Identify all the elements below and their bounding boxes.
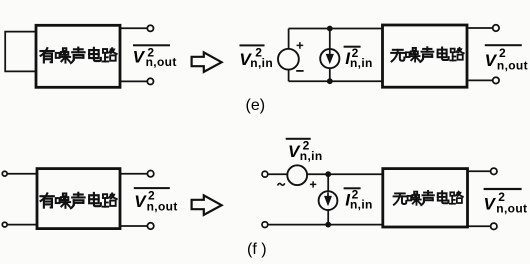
noisy circuit box (e)	[36, 25, 120, 87]
wire: current source branch verticals (e)	[329, 29, 331, 82]
noiseless circuit box (e)	[383, 25, 468, 87]
wire: voltage source branch verticals (e)	[288, 29, 290, 82]
junction dot: bottom rail (e)	[327, 78, 333, 84]
svg-text:V: V	[133, 48, 146, 67]
wire: output top (e noisy box)	[120, 27, 147, 29]
svg-text:n,in: n,in	[350, 197, 373, 211]
svg-text:n,out: n,out	[496, 202, 527, 216]
box label: you-zao-sheng-dian-lu (noisy circuit, e)	[40, 48, 116, 63]
label Vn,out squared (e noiseless box output)	[485, 44, 528, 72]
noisy circuit box (f)	[37, 169, 120, 229]
svg-text:V: V	[485, 51, 498, 70]
wire: output bottom (f noisy box)	[120, 223, 154, 229]
svg-text:n,in: n,in	[300, 149, 323, 163]
figure label (e)	[246, 97, 266, 114]
noiseless circuit box (f)	[383, 169, 468, 227]
wire: shunt current source verticals (f)	[327, 174, 329, 224]
wire: output bottom (f noiseless box)	[468, 223, 497, 229]
svg-text:n,out: n,out	[147, 200, 178, 214]
junction dot: bottom rail (f)	[325, 222, 331, 228]
label In,in squared (e current source)	[344, 46, 373, 70]
svg-text:n,out: n,out	[146, 55, 177, 69]
noise voltage source Vn (e)	[278, 42, 304, 71]
box label: you-zao-sheng-dian-lu (noisy circuit, f)	[40, 193, 116, 208]
label Vn,in squared (f series source)	[286, 138, 323, 163]
svg-text:(e): (e)	[246, 97, 266, 114]
wire: input bottom with terminal (f noisy box)	[2, 222, 36, 227]
wire: input top with terminal (f noisy box)	[2, 171, 36, 176]
label Vn,out squared (e noisy box output)	[133, 44, 177, 69]
svg-text:n,out: n,out	[497, 58, 528, 72]
label Vn,out squared (f noiseless box output)	[484, 188, 528, 216]
wire: top rail (e)	[289, 28, 382, 30]
noise current source In (e)	[320, 49, 339, 68]
svg-text:n,in: n,in	[250, 56, 273, 70]
wire: output top (f noiseless box)	[468, 168, 497, 174]
series noise voltage source Vn (f)	[278, 165, 317, 187]
block arrow (f)	[192, 195, 222, 215]
label Vn,in squared (e input source)	[239, 44, 273, 70]
label In,in squared (f current source)	[344, 187, 373, 211]
wire: output top (f noisy box)	[120, 171, 154, 177]
box label: wu-zao-sheng-dian-lu (noiseless circuit, f)	[394, 191, 463, 205]
wire: output top (e noiseless box)	[468, 25, 499, 31]
svg-text:V: V	[134, 192, 147, 211]
wire: series source to box (f)	[307, 173, 382, 175]
junction dot: top rail (f)	[325, 171, 331, 177]
svg-text:(f ): (f )	[247, 241, 267, 258]
label Vn,out squared (f noisy box output)	[134, 187, 178, 214]
svg-text:V: V	[484, 195, 497, 214]
wire: input short-circuit loop (e)	[5, 32, 35, 72]
svg-text:n,in: n,in	[350, 56, 373, 70]
terminal: output bottom (e noisy box)	[147, 78, 153, 84]
wire: output bottom (e noisy box)	[120, 80, 147, 82]
terminal: output top (e noisy box)	[147, 25, 153, 31]
shunt noise current source In (f)	[319, 191, 338, 210]
junction dot: top rail (e)	[327, 26, 333, 32]
wire: bottom rail (f)	[262, 222, 382, 228]
block arrow (e)	[192, 52, 222, 72]
wire: bottom rail (e)	[289, 80, 382, 82]
box label: wu-zao-sheng-dian-lu (noiseless circuit, e)	[391, 47, 464, 62]
wire: input lead to series source (f)	[262, 171, 288, 177]
figure label (f)	[247, 241, 267, 258]
wire: output bottom (e noiseless box)	[468, 77, 499, 83]
